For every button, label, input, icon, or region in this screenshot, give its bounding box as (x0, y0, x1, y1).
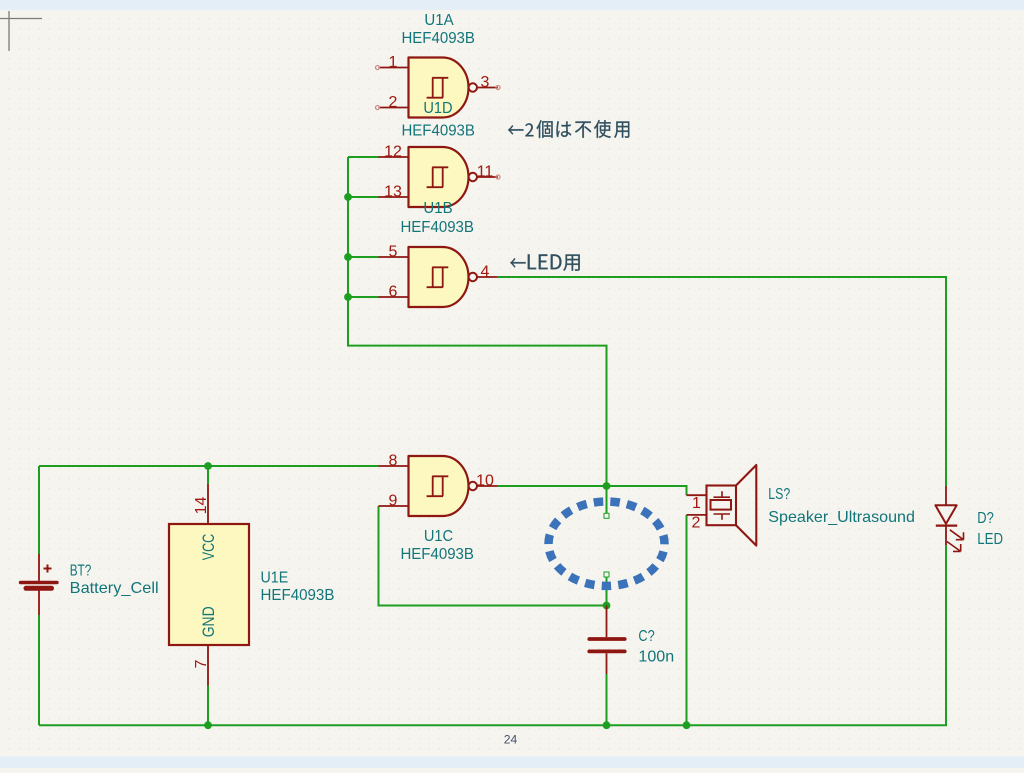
output pin 3 of U1A (477, 87, 498, 89)
svg-text:14: 14 (193, 497, 210, 515)
output inversion bubble U1D (469, 173, 477, 181)
wire U1C pin 9 feedback to capacitor (379, 506, 607, 606)
svg-text:11: 11 (477, 164, 494, 181)
svg-text:GND: GND (200, 606, 218, 637)
wire stub to U1D pin 13 (348, 196, 379, 198)
speaker LS? crystal bottom electrode (714, 514, 731, 520)
svg-text:U1C: U1C (424, 528, 453, 545)
schmitt trigger hysteresis mark U1A (427, 78, 449, 98)
unconnected pin end U1A pin 1 (376, 66, 380, 70)
wire gate input bus left vertical with corner to C top node (348, 157, 607, 486)
speaker LS? body (707, 486, 737, 526)
battery BT? plus sign (44, 565, 52, 573)
schmitt trigger hysteresis mark U1D (427, 167, 449, 187)
wire U1E pin 14 to VCC rail (207, 466, 209, 484)
battery BT? negative plate (26, 586, 52, 591)
wire GND bottom rail (39, 724, 947, 726)
junction VCC rail / U1E pin 14 (204, 462, 212, 470)
svg-text:8: 8 (389, 453, 398, 470)
svg-text:Speaker_Ultrasound: Speaker_Ultrasound (768, 509, 915, 526)
capacitor C? top plate (589, 637, 624, 641)
svg-text:Battery_Cell: Battery_Cell (70, 580, 159, 597)
svg-text:D?: D? (977, 510, 994, 527)
output inversion bubble U1B (469, 273, 477, 281)
unconnected pin end U1D pin 11 (496, 175, 500, 179)
wire U1E pin 7 to GND rail (207, 686, 209, 726)
pin 14 of U1E (207, 484, 209, 524)
dangling wire end square node A (604, 513, 609, 518)
svg-text:10: 10 (476, 473, 494, 490)
input pin 13 of U1D (379, 196, 409, 198)
svg-text:HEF4093B: HEF4093B (401, 30, 475, 47)
pin 7 of U1E (207, 645, 209, 686)
capacitor C? bottom plate (589, 650, 624, 654)
wire stub to U1D pin 12 (348, 156, 379, 158)
battery BT? top pin (38, 554, 40, 581)
wire LED cathode to GND rail (945, 545, 947, 725)
input pin 6 of U1B (379, 296, 409, 298)
input pin 5 of U1B (379, 256, 409, 258)
junction bus / U1B pin 5 (344, 253, 352, 261)
svg-text:U1E: U1E (261, 570, 289, 587)
LED D? cathode bar (936, 524, 957, 526)
capacitor C? top pin (606, 606, 608, 638)
input pin 2 of U1A (379, 107, 409, 109)
battery BT? positive plate (21, 581, 58, 584)
speaker pin 2 (687, 514, 707, 516)
sheet origin crosshair (0, 11, 42, 51)
input pin 1 of U1A (379, 67, 409, 69)
highlight dotted ellipse around wire gap (549, 502, 665, 586)
LED D? anode pin (945, 486, 947, 505)
svg-text:C?: C? (638, 628, 654, 645)
speaker pin 1 (687, 494, 707, 496)
page strip bottom (0, 757, 1024, 769)
power unit body U1E (169, 524, 249, 645)
schmitt trigger hysteresis mark U1B (427, 267, 449, 287)
unconnected pin end U1A pin 3 (496, 86, 500, 90)
svg-text:BT?: BT? (70, 563, 92, 580)
svg-text:HEF4093B: HEF4093B (400, 546, 474, 563)
svg-text:5: 5 (389, 244, 398, 261)
svg-text:2: 2 (692, 514, 701, 531)
LED D? triangle (935, 505, 956, 524)
output inversion bubble U1C (469, 482, 477, 490)
wire speaker pin 2 down to GND rail (686, 515, 688, 725)
svg-text:LS?: LS? (768, 486, 790, 503)
svg-text:6: 6 (389, 284, 398, 301)
svg-text:LED: LED (977, 531, 1003, 548)
svg-text:100n: 100n (638, 648, 674, 665)
svg-text:U1A: U1A (424, 12, 454, 29)
junction bus / U1B pin 6 (344, 293, 352, 301)
NAND gate body U1D (409, 147, 469, 207)
junction bus / U1D pin 13 (344, 193, 352, 201)
junction GND rail / U1E pin 7 (204, 721, 212, 729)
wire VCC top rail from battery + to U1C pin 8 (39, 465, 379, 467)
unconnected pin end U1A pin 2 (376, 106, 380, 110)
wire battery + vertical (38, 466, 40, 554)
speaker LS? horn (736, 465, 756, 546)
output pin 11 of U1D (477, 176, 498, 178)
svg-text:12: 12 (384, 144, 402, 161)
output pin 4 of U1B (477, 276, 498, 278)
wire U1B output pin 4 to LED (498, 277, 946, 486)
wire U1C output pin 10 to speaker pin 1 (498, 486, 687, 495)
wire dangling stub below node A (606, 486, 608, 513)
battery BT? bottom pin (38, 591, 40, 616)
svg-text:3: 3 (481, 74, 490, 91)
input pin 9 of U1C (379, 505, 409, 507)
LED D? emission arrow 2 (947, 542, 961, 552)
dangling wire end square node B (604, 572, 609, 577)
speaker LS? crystal top electrode (714, 491, 731, 497)
speaker LS? piezo crystal box (711, 500, 732, 510)
svg-text:1: 1 (389, 54, 398, 71)
input pin 8 of U1C (379, 465, 409, 467)
junction GND rail / speaker pin 2 (683, 721, 691, 729)
capacitor C? bottom pin (606, 653, 608, 674)
LED D? cathode pin (945, 526, 947, 546)
svg-text:HEF4093B: HEF4093B (401, 122, 475, 139)
wire stub to U1B pin 6 (348, 296, 379, 298)
wire battery - vertical (38, 615, 40, 725)
wire capacitor bottom to GND rail (606, 674, 608, 725)
svg-text:1: 1 (692, 495, 701, 512)
svg-text:9: 9 (389, 493, 398, 510)
LED D? emission arrow 1 (950, 530, 964, 540)
input pin 12 of U1D (379, 156, 409, 158)
svg-text:24: 24 (504, 733, 518, 747)
svg-text:HEF4093B: HEF4093B (261, 587, 335, 604)
wire stub to U1B pin 5 (348, 256, 379, 258)
NAND gate body U1A (409, 58, 469, 118)
svg-text:13: 13 (384, 184, 402, 201)
annotation text: ←LED用 (for LED) (510, 254, 580, 271)
svg-text:4: 4 (481, 264, 490, 281)
junction feedback / capacitor top (603, 602, 611, 610)
svg-text:U1B: U1B (423, 200, 452, 217)
schmitt trigger hysteresis mark U1C (427, 476, 449, 496)
NAND gate body U1B (409, 247, 469, 307)
svg-text:U1D: U1D (423, 100, 452, 117)
svg-text:2: 2 (389, 94, 398, 111)
output inversion bubble U1A (469, 83, 477, 91)
wire dangling stub above node B (606, 577, 608, 606)
annotation text: ←2個は不使用 (2 gates unused) (508, 120, 629, 138)
svg-text:VCC: VCC (200, 534, 218, 561)
NAND gate body U1C (409, 456, 469, 516)
svg-text:HEF4093B: HEF4093B (400, 219, 474, 236)
page strip top (0, 0, 1024, 10)
junction U1C output node (603, 482, 611, 490)
junction GND rail / capacitor bottom (603, 721, 611, 729)
output pin 10 of U1C (477, 485, 498, 487)
svg-text:7: 7 (193, 659, 210, 668)
